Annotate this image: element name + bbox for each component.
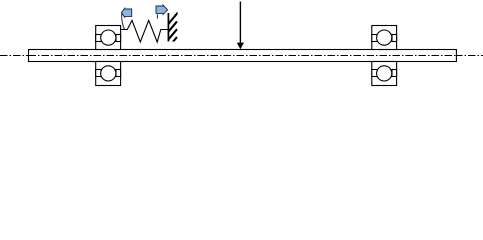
- shaft: [29, 50, 457, 62]
- wall hatching: [168, 12, 178, 47]
- leader line of right blue arrow: [156, 14, 158, 18]
- right blue arrow (points right): [156, 5, 168, 15]
- bearing B1 (upper left): [96, 26, 121, 50]
- bearing B3 (upper right): [372, 26, 397, 50]
- centerline over shaft: [29, 55, 457, 57]
- spring (between bearing B1 and wall): [121, 20, 169, 42]
- force arrow (vertical, onto shaft): [237, 2, 244, 50]
- bearing B2 (lower left): [96, 62, 121, 86]
- leader line of left blue arrow: [122, 14, 125, 30]
- centerline (shaft axis, dash-dot): [0, 55, 483, 57]
- bearing B4 (lower right): [372, 62, 397, 86]
- left blue arrow (points left): [121, 8, 131, 17]
- wall (fixed support line): [167, 13, 169, 42]
